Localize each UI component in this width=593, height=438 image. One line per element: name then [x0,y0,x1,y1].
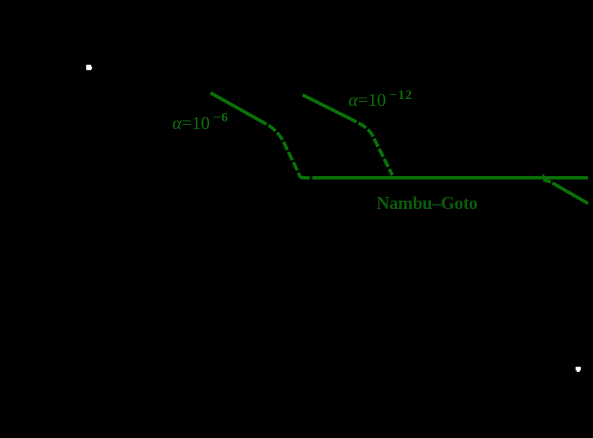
curve alpha=1e-6 solid slant segment [211,93,267,124]
Nambu-Goto plateau solid line [312,176,588,179]
white speck top-left [86,65,92,70]
svg-text:α=10: α=10 [172,113,210,133]
svg-text:Nambu–Goto: Nambu–Goto [377,193,478,213]
svg-text:−6: −6 [213,109,229,124]
curve alpha=1e-12 dashed knee and steep segment [357,122,393,175]
curve alpha=1e-12 solid slant segment [303,95,357,122]
plateau elbow dash [298,173,309,178]
svg-text:α=10: α=10 [348,90,386,110]
curve alpha=1e-6 dashed knee and steep segment [267,124,298,171]
right diagonal branch start stub [543,180,551,182]
svg-text:−12: −12 [390,87,413,102]
junction bump above plateau [542,174,544,176]
white speck bottom-right [576,367,581,372]
right diagonal branch main segment [552,183,588,204]
